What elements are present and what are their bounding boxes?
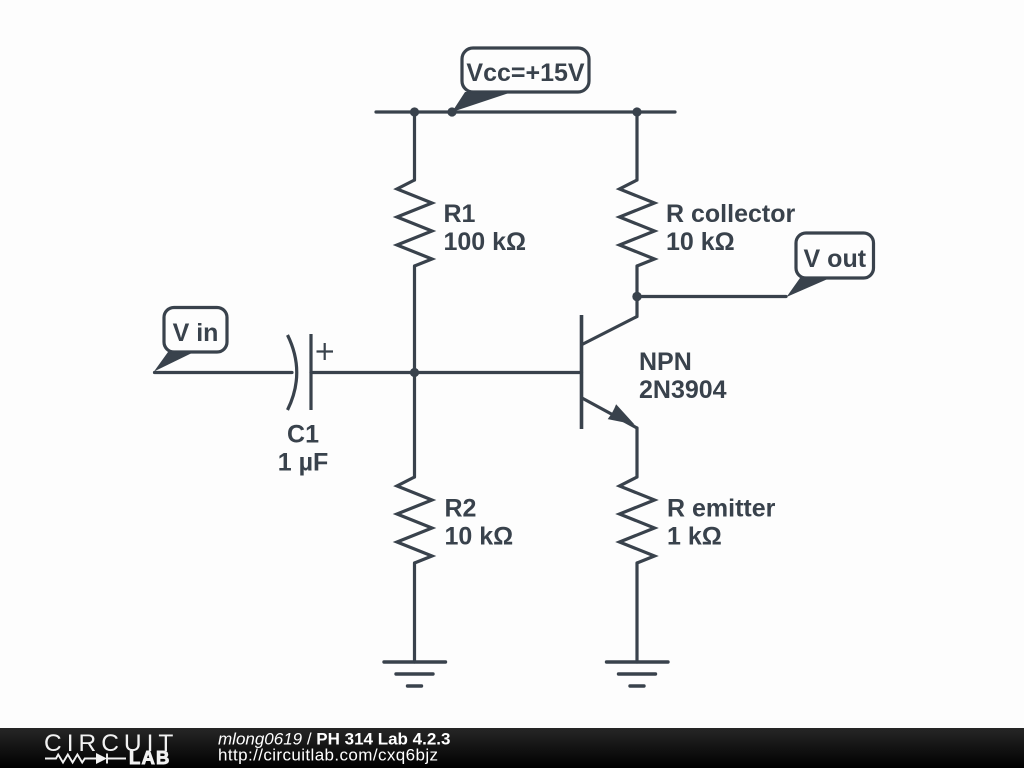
svg-text:100 kΩ: 100 kΩ	[444, 228, 527, 256]
wire emitter to R emitter	[635, 428, 638, 477]
svg-text:V in: V in	[173, 319, 219, 347]
node Vcc=+15V flag	[452, 48, 589, 112]
resistor R collector	[620, 180, 655, 266]
ground left	[384, 662, 446, 686]
resistor R2	[397, 477, 432, 563]
wire R emitter bottom to ground	[635, 563, 638, 662]
node junction dot rail-Vcc	[447, 107, 456, 116]
node junction dot base	[410, 368, 419, 377]
label R1 value	[444, 200, 527, 256]
CircuitLab logo resistor-diode glyph	[45, 754, 126, 764]
CircuitLab logo LAB	[129, 747, 171, 768]
label C1 value	[278, 421, 329, 477]
svg-text:C1: C1	[287, 421, 319, 449]
svg-text:http://circuitlab.com/cxq6bjz: http://circuitlab.com/cxq6bjz	[218, 746, 438, 765]
wire capacitor to base	[311, 371, 582, 374]
wire R collector bottom to collector node	[635, 266, 638, 317]
svg-text:10 kΩ: 10 kΩ	[666, 228, 735, 256]
wire input to capacitor	[155, 371, 293, 374]
svg-text:1 µF: 1 µF	[278, 449, 329, 477]
wire R2 bottom to ground	[413, 563, 416, 662]
label R collector value	[666, 200, 795, 256]
svg-text:Vcc=+15V: Vcc=+15V	[466, 59, 584, 87]
label R emitter value	[667, 495, 776, 551]
svg-text:1 kΩ: 1 kΩ	[667, 523, 722, 551]
node junction dot rail-Rcollector	[632, 107, 641, 116]
svg-text:R emitter: R emitter	[667, 495, 776, 523]
resistor R1	[397, 180, 432, 266]
resistor R emitter	[620, 477, 655, 563]
svg-text:R2: R2	[445, 495, 477, 523]
label R2 value	[445, 495, 514, 551]
wire top rail	[376, 110, 675, 113]
footer bar	[0, 728, 1024, 768]
svg-text:LAB: LAB	[129, 747, 171, 768]
node junction dot rail-R1	[410, 107, 419, 116]
svg-text:R1: R1	[444, 200, 476, 228]
capacitor C1	[288, 334, 334, 410]
svg-text:R collector: R collector	[666, 200, 795, 228]
wire R collector top lead	[635, 112, 638, 180]
ground right	[607, 662, 669, 686]
svg-text:2N3904: 2N3904	[639, 376, 727, 404]
node junction dot collector	[632, 292, 641, 301]
transistor Q1 NPN 2N3904	[582, 315, 638, 429]
wire collector node to V out	[637, 295, 786, 298]
wire R1 top lead	[413, 112, 416, 180]
node V out flag	[787, 233, 874, 297]
CircuitLab logo diode triangle	[96, 753, 107, 764]
wire R1 bottom to base node	[413, 266, 416, 477]
svg-text:NPN: NPN	[639, 348, 692, 376]
transistor emitter arrow	[608, 404, 635, 424]
CircuitLab logo CIRCUIT	[44, 730, 178, 757]
footer title text	[218, 730, 450, 765]
node V in flag	[154, 308, 227, 372]
svg-text:V out: V out	[804, 245, 867, 273]
svg-text:10 kΩ: 10 kΩ	[445, 523, 514, 551]
label Q1 NPN 2N3904	[639, 348, 727, 404]
